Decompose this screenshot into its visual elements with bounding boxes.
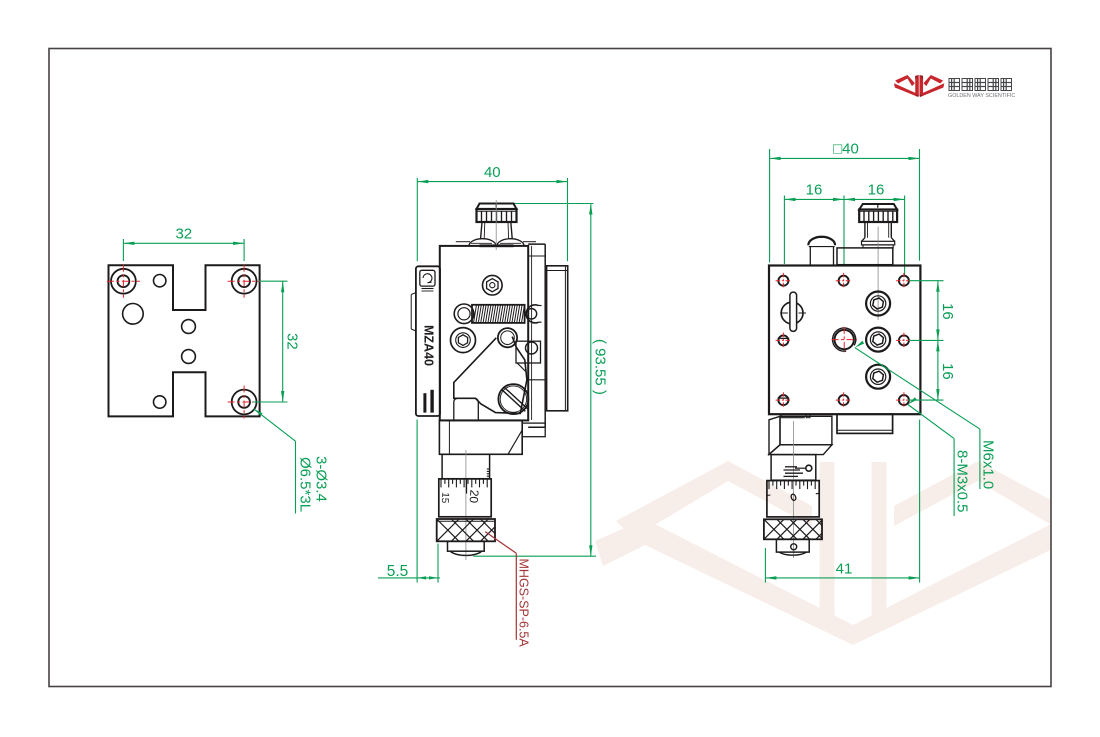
slotted screw <box>498 384 528 414</box>
lower block <box>439 420 522 454</box>
svg-text:40: 40 <box>484 164 501 181</box>
label small print <box>431 390 434 412</box>
center hole lower <box>182 350 196 364</box>
right hang block <box>522 423 545 437</box>
svg-text:□40: □40 <box>833 140 859 157</box>
side knob circle behind slot <box>781 302 803 324</box>
svg-text:15: 15 <box>439 492 451 504</box>
M3 hole at 783,281 <box>778 276 788 286</box>
small hole top <box>154 275 166 287</box>
hex adjuster screw bottom <box>866 365 890 389</box>
right view bottom cap <box>776 539 809 552</box>
svg-text:32: 32 <box>284 333 301 350</box>
svg-text:41: 41 <box>836 560 853 577</box>
counterbore hole top-right <box>232 269 257 294</box>
thimble knurled ring <box>437 519 495 541</box>
middle view knob stem <box>481 222 482 239</box>
middle view dimension (93.55) <box>474 204 609 557</box>
right view dimensions 16 16 top <box>784 182 904 275</box>
wedge foot <box>454 398 479 420</box>
right view body square <box>769 266 920 415</box>
micrometer bottom cap <box>448 541 485 551</box>
middle view dimension 40 <box>417 164 567 261</box>
svg-text:8-M3x0.5: 8-M3x0.5 <box>954 450 971 513</box>
right view thimble knurl <box>764 519 822 539</box>
svg-text:( 93.55 ): ( 93.55 ) <box>592 339 609 395</box>
right view stem centerline <box>793 421 795 558</box>
spring coil <box>472 305 525 323</box>
clamp wedge bracket <box>454 337 527 414</box>
red leader MHGS-SP-6.5A <box>485 532 530 648</box>
right view lower step details <box>780 414 782 418</box>
center hole upper <box>182 320 196 334</box>
svg-text:3-Ø3.4: 3-Ø3.4 <box>313 456 330 502</box>
company logo Chinese text 欧普特科技 (faked strokes) <box>949 79 1012 91</box>
centerline cross bottom-right <box>228 401 261 403</box>
svg-text:5.5: 5.5 <box>387 563 409 580</box>
M3 hole at 783,340 <box>778 335 788 345</box>
right view knob base plate <box>837 248 893 265</box>
hex adjuster screw top <box>866 292 890 316</box>
drawing border frame <box>49 49 1051 687</box>
dimension 32 horizontal <box>123 226 244 262</box>
micrometer centerline <box>465 450 467 560</box>
right view stem side hole <box>806 465 812 471</box>
left view: plate outline with H notches <box>109 265 260 416</box>
left tab <box>411 293 416 332</box>
right view oblique block <box>769 416 780 454</box>
pivot circle <box>498 328 517 347</box>
M3 hole at 904,400 <box>899 395 909 405</box>
svg-text:16: 16 <box>939 303 956 320</box>
middle view knurled knob cap <box>477 204 517 210</box>
M3 hole at 904,281 <box>899 276 909 286</box>
svg-text:MHGS-SP-6.5A: MHGS-SP-6.5A <box>517 559 531 648</box>
barrel zero mark <box>790 494 796 502</box>
hex adjuster screw middle <box>866 328 890 352</box>
svg-text:20: 20 <box>467 489 482 504</box>
svg-text:16: 16 <box>939 363 956 380</box>
M3 hole at 844,281 <box>839 276 849 286</box>
right view micrometer stem <box>771 455 816 481</box>
middle view body top domes <box>469 239 496 246</box>
middle view knob knurl band <box>477 209 517 222</box>
right view lower right plate <box>837 414 893 433</box>
small hole bottom <box>154 396 166 408</box>
dimension 32 vertical <box>253 281 301 402</box>
leader 8-M3x0.5 <box>908 397 971 516</box>
spring ring left <box>454 304 474 324</box>
vertical slot capsule <box>790 292 797 331</box>
right view knob knurl band <box>859 210 897 223</box>
svg-text:32: 32 <box>175 226 192 243</box>
M3 hole at 844,400 <box>839 395 849 405</box>
right view barrel <box>767 481 819 517</box>
dimensions 16 16 right side <box>908 281 956 400</box>
svg-text:MZA40: MZA40 <box>422 325 436 366</box>
M3 hole at 783,400 <box>778 395 788 405</box>
middle view left label strip <box>416 266 440 416</box>
micrometer stem <box>442 454 490 478</box>
middle view right side plate <box>547 266 568 411</box>
hex socket screw top <box>483 275 503 295</box>
counterbore hole bottom-right <box>232 390 257 415</box>
spring hook right <box>526 309 536 319</box>
hex socket screw mid-left <box>451 328 476 353</box>
right view knob stem <box>864 222 866 238</box>
large hole left <box>123 304 144 325</box>
middle view knob centerline <box>495 200 497 250</box>
svg-text:16: 16 <box>868 182 885 199</box>
centerline cross top-right <box>228 280 261 282</box>
right view knob cap <box>859 204 897 210</box>
micrometer barrel with graduations <box>439 479 491 517</box>
company logo mark <box>894 75 944 97</box>
right view knob centerline <box>877 227 879 321</box>
M3 hole at 904,340 <box>899 335 909 345</box>
middle view back panel <box>544 244 546 427</box>
middle view main body plate <box>440 246 528 421</box>
right view dimension square40 <box>770 140 920 262</box>
leader M6x1.0 <box>855 341 996 489</box>
centerline cross top-left <box>107 280 140 282</box>
center M6 hole <box>835 330 854 349</box>
middle view dimension 5.5 <box>378 420 440 583</box>
counterbore hole top-left <box>111 269 136 294</box>
svg-text:16: 16 <box>806 182 823 199</box>
dimension 41 <box>765 420 919 583</box>
label logo icon <box>420 270 435 286</box>
svg-text:Ø6.5*3L: Ø6.5*3L <box>297 457 314 512</box>
svg-text:GOLDEN WAY SCIENTIFIC: GOLDEN WAY SCIENTIFIC <box>948 93 1015 99</box>
leader 3-dia3.4 counterbore callout <box>254 409 330 514</box>
side small block with hole <box>516 341 541 363</box>
right view dome cap <box>808 237 835 246</box>
svg-text:M6x1.0: M6x1.0 <box>979 440 996 489</box>
